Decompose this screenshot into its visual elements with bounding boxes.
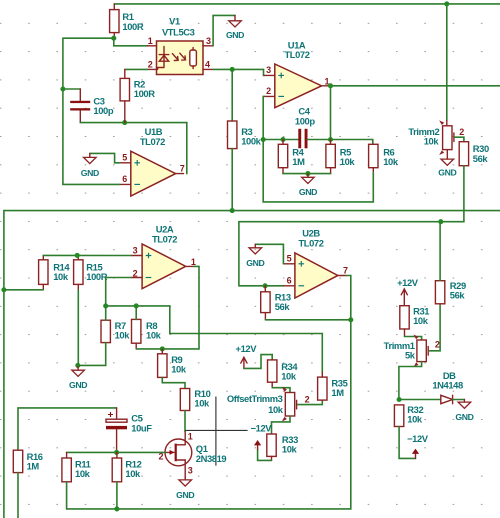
junction R12 bottom (114, 506, 119, 511)
resistor R31 (400, 306, 409, 329)
resistor R7 (101, 320, 110, 342)
ground GND (DB) (463, 400, 465, 403)
svg-text:10k: 10k (146, 330, 162, 341)
svg-text:2: 2 (133, 269, 138, 279)
svg-text:−12V: −12V (407, 433, 429, 444)
diode DB 1N4148 (441, 395, 453, 403)
wire R1 to V1 pin1 (63, 37, 114, 39)
wire fb2 to U2B pin6 (239, 285, 284, 287)
svg-text:3: 3 (266, 65, 271, 75)
svg-text:GND: GND (246, 258, 264, 268)
wire R8 bottom rail (136, 348, 199, 350)
ground GND (Trimm2) (446, 150, 448, 160)
junction R8 top (134, 303, 139, 308)
ground GND (R15 R7) (77, 365, 79, 370)
resistor R1 (110, 10, 119, 33)
svg-text:56k: 56k (275, 301, 291, 312)
svg-text:1M: 1M (27, 460, 40, 471)
wire U1A pin2 feedback (262, 96, 265, 139)
svg-text:100R: 100R (86, 271, 107, 282)
svg-text:10k: 10k (413, 315, 429, 326)
resistor R34 (268, 360, 277, 382)
resistor R8 (132, 319, 141, 343)
resistor R9 (158, 354, 167, 378)
wire R34 to Trimm3 (272, 388, 290, 393)
svg-text:10k: 10k (340, 156, 356, 167)
power +12V (R34) (241, 357, 247, 363)
transistor Q1 2N3819 (165, 439, 192, 466)
junction gnd node (75, 363, 80, 368)
svg-text:5k: 5k (405, 350, 416, 361)
ground GND (Q1) (184, 477, 186, 480)
ground GND (U1B) (89, 153, 91, 157)
svg-text:GND: GND (81, 168, 99, 178)
resistor R14 (39, 260, 48, 285)
svg-text:2: 2 (266, 86, 271, 96)
svg-text:10k: 10k (194, 398, 210, 409)
svg-text:100p: 100p (93, 105, 113, 116)
junction R13 top (263, 283, 268, 288)
resistor R33 (267, 434, 276, 456)
svg-text:TL072: TL072 (298, 237, 323, 248)
wire r7r8 rail (106, 305, 170, 307)
resistor R32 (394, 405, 403, 427)
capacitor C4 (298, 129, 301, 149)
junction R32 top (397, 397, 402, 402)
wire to R35 rail (170, 306, 322, 373)
svg-text:OffsetTrimm3: OffsetTrimm3 (227, 393, 283, 404)
svg-text:10k: 10k (424, 136, 440, 147)
svg-text:GND: GND (176, 490, 194, 500)
resistor R16 (13, 450, 22, 472)
junction pin2 node (261, 137, 266, 142)
svg-text:2: 2 (435, 340, 440, 350)
junction R5 top (328, 137, 333, 142)
wire to C3 (63, 88, 80, 90)
wire top rail (114, 3, 500, 5)
junction R1 bottom (111, 36, 116, 41)
svg-text:2: 2 (305, 394, 310, 404)
svg-text:3: 3 (188, 465, 193, 475)
svg-text:10k: 10k (383, 156, 399, 167)
svg-text:10k: 10k (75, 468, 91, 479)
resistor R4 (278, 144, 287, 167)
wire fb node left (263, 139, 298, 141)
wire to diode (399, 399, 441, 401)
op-amp U2B TL072 (295, 253, 338, 298)
svg-text:GND: GND (69, 380, 87, 390)
svg-text:GND: GND (438, 168, 456, 178)
svg-text:5: 5 (122, 152, 127, 162)
svg-text:7: 7 (180, 163, 185, 173)
resistor R12 (112, 458, 121, 482)
svg-text:10k: 10k (115, 330, 131, 341)
wire U2A out (194, 265, 199, 267)
svg-text:100R: 100R (122, 21, 143, 32)
wire R4 R5 gnd (283, 173, 331, 175)
wire Trimm1 bottom (399, 362, 422, 400)
svg-text:VTL5C3: VTL5C3 (162, 26, 195, 37)
svg-text:10k: 10k (125, 468, 141, 479)
junction U1A out (328, 83, 333, 88)
ground GND (top) (234, 15, 236, 20)
resistor R29 (435, 281, 444, 304)
wire C3 to U1B out (80, 122, 187, 124)
svg-text:10k: 10k (407, 414, 423, 425)
wire U1B pin5 gnd (90, 153, 120, 162)
junction V1 pin4 (230, 67, 235, 72)
svg-text:1: 1 (188, 431, 193, 441)
svg-text:5: 5 (287, 254, 292, 264)
resistor R5 (326, 144, 335, 167)
svg-text:1N4148: 1N4148 (432, 380, 463, 391)
wire V1 pin2 to R2 (125, 68, 148, 70)
svg-text:3: 3 (206, 36, 211, 46)
wire +12V to R34 (244, 355, 272, 369)
wire main bus (4, 210, 500, 212)
crosshair cursor (185, 397, 247, 466)
wire pin3 rail (43, 254, 131, 256)
resistor R2 (120, 78, 129, 101)
capacitor C5 (106, 419, 127, 422)
svg-text:56k: 56k (450, 289, 466, 300)
svg-text:TL072: TL072 (140, 136, 165, 147)
junction R3 bus (230, 208, 235, 213)
junction R4 top (280, 137, 285, 142)
svg-text:2: 2 (148, 59, 153, 69)
svg-text:1: 1 (148, 36, 153, 46)
wire R14 bottom (4, 289, 43, 291)
junction R29 top (438, 219, 443, 224)
svg-text:100p: 100p (295, 115, 315, 126)
op-amp U2A TL072 (142, 244, 186, 289)
op-amp U1A TL072 (275, 64, 322, 108)
junction C5 bottom (114, 450, 119, 455)
wire gate rail (67, 451, 166, 453)
resistor R35 (318, 377, 327, 400)
svg-text:+12V: +12V (397, 277, 419, 288)
wire U2A pin2 (106, 278, 131, 306)
svg-text:2N3819: 2N3819 (196, 453, 227, 464)
resistor R30 (459, 142, 468, 166)
power -12V (R32) (412, 449, 419, 454)
wire fb node right (307, 139, 372, 141)
wire Trimm3 wiper to R35 (298, 400, 323, 405)
svg-text:3: 3 (133, 245, 138, 255)
ground GND (U2B) (254, 244, 256, 248)
svg-text:10k: 10k (171, 363, 187, 374)
svg-text:GND: GND (299, 187, 317, 197)
resistor R3 (228, 121, 237, 149)
svg-text:TL072: TL072 (152, 233, 177, 244)
resistor R15 (74, 260, 83, 285)
svg-text:100R: 100R (134, 88, 155, 99)
svg-text:+12V: +12V (236, 343, 258, 354)
wire R31 to Trimm1 (405, 337, 422, 341)
junction R2 bottom (122, 120, 127, 125)
wire U1B pin6 (63, 183, 120, 185)
svg-text:−12V: −12V (251, 422, 273, 433)
svg-text:V1: V1 (169, 16, 180, 27)
junction R15 top (75, 253, 80, 258)
svg-text:10k: 10k (281, 370, 297, 381)
svg-text:6: 6 (122, 174, 127, 184)
svg-text:7: 7 (343, 265, 348, 275)
svg-text:GND: GND (455, 412, 473, 422)
wire diode to GND (453, 399, 465, 401)
junction R13 bottom (348, 317, 353, 322)
svg-text:10k: 10k (53, 271, 69, 282)
wire V1 pin4 node (213, 68, 263, 70)
trimmer OffsetTrimm3 (285, 393, 294, 417)
svg-text:6: 6 (287, 276, 292, 286)
wire Trimm3 bottom (272, 416, 291, 434)
ground GND (R4 R5) (307, 174, 309, 178)
trimmer Trimm2 (446, 121, 448, 126)
svg-text:GND: GND (226, 30, 244, 40)
wire U2B pin5 gnd (255, 244, 283, 263)
power +12V (R31) (401, 289, 407, 295)
svg-text:56k: 56k (473, 153, 489, 164)
wire R15 to gnd (77, 290, 79, 365)
svg-text:4: 4 (205, 59, 210, 69)
junction R14 left (1, 287, 6, 292)
svg-text:100k: 100k (241, 135, 261, 146)
svg-text:1M: 1M (331, 387, 344, 398)
wire U1A out (329, 85, 500, 87)
capacitor C3 (70, 101, 90, 103)
svg-text:10k: 10k (282, 444, 298, 455)
svg-text:10k: 10k (268, 404, 284, 415)
junction C3 top (60, 86, 65, 91)
trimmer Trimm1 (417, 340, 426, 362)
resistor R6 (369, 144, 378, 167)
optocoupler V1 VTL5C3 (157, 41, 204, 75)
svg-text:TL072: TL072 (284, 49, 309, 60)
wire Trimm1 wiper to R29 (429, 304, 440, 351)
junction R9 top (160, 346, 165, 351)
wire node to R3 (231, 69, 233, 121)
junction R7 top (103, 303, 108, 308)
wire R16 C5 rail (18, 408, 117, 450)
svg-text:10uF: 10uF (131, 422, 152, 433)
wire fb2 rail (239, 222, 464, 286)
wire R6 feedback (263, 140, 373, 202)
wire U2B out (67, 276, 351, 509)
svg-text:1M: 1M (292, 156, 305, 167)
wire R32 to -12V (399, 457, 415, 459)
svg-text:2: 2 (459, 127, 464, 137)
svg-text:1: 1 (191, 257, 196, 267)
power -12V (R33) (254, 440, 261, 445)
wire R33 to -12V (258, 449, 272, 460)
wire Trimm2 wiper to R30 (455, 137, 464, 142)
junction R4R5 gnd (305, 171, 310, 176)
op-amp U1B TL072 (131, 151, 176, 196)
resistor R11 (62, 458, 71, 482)
wire to Trimm2 (446, 4, 448, 121)
resistor R10 (180, 389, 189, 411)
wire left branch down (62, 38, 64, 184)
wire V1 pin3 to GND (213, 15, 235, 45)
resistor R13 (261, 292, 270, 313)
junction top rail (444, 1, 449, 6)
